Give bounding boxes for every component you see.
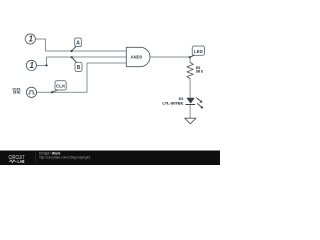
output wire from gate to LED node bbox=[150, 57, 190, 62]
wire from CLK1 to gate input 3 bbox=[37, 63, 127, 92]
LED light arrow 2 bbox=[197, 104, 201, 108]
ground symbol bbox=[185, 118, 196, 124]
logic input source 1 (top) bbox=[25, 34, 35, 44]
CircuitLab logo zigzag bbox=[9, 160, 17, 163]
resistor R1 bbox=[187, 62, 193, 78]
svg-text:AND3: AND3 bbox=[131, 55, 143, 60]
clock source CLK1 bbox=[26, 87, 36, 97]
svg-text:LTL-307EE: LTL-307EE bbox=[162, 101, 184, 105]
LED light arrow 1 bbox=[197, 98, 201, 102]
net flag CLK box bbox=[55, 81, 66, 90]
AND gate AND3 bbox=[126, 47, 150, 66]
net flag A box bbox=[75, 38, 82, 47]
node dot A bbox=[71, 50, 73, 52]
pointer line of flag B bbox=[72, 57, 77, 62]
footer bar bbox=[0, 151, 220, 166]
node dot B bbox=[71, 56, 73, 58]
footer separator bbox=[35, 152, 37, 163]
svg-text:B: B bbox=[77, 65, 81, 71]
wire from input 1 to node A bbox=[36, 39, 127, 51]
svg-text:330 Ω: 330 Ω bbox=[196, 70, 203, 74]
svg-text:LAB: LAB bbox=[18, 159, 25, 165]
wire from R1 to LED D1 bbox=[189, 79, 191, 98]
svg-text:LED: LED bbox=[194, 49, 204, 54]
logic input source 2 (middle) bbox=[26, 60, 36, 70]
svg-text:1: 1 bbox=[30, 61, 34, 70]
diode D1 triangle bbox=[186, 98, 194, 104]
pointer line of flag CLK bbox=[52, 90, 57, 92]
wire from D1 to ground bbox=[189, 105, 191, 118]
svg-text:A: A bbox=[76, 41, 80, 47]
pointer line of flag A bbox=[72, 47, 76, 51]
svg-text:10 Hz: 10 Hz bbox=[13, 91, 21, 95]
pointer line of flag LED bbox=[190, 55, 194, 57]
diode D1 cathode bar bbox=[186, 104, 195, 106]
net flag B box bbox=[75, 62, 82, 71]
node dot CLK bbox=[51, 91, 53, 93]
square wave glyph inside CLK1 bbox=[28, 91, 34, 94]
junction dot on wire B corner bbox=[45, 64, 47, 66]
net flag LED box bbox=[192, 46, 204, 55]
wire from input 2 to node B bbox=[37, 57, 127, 65]
node dot LED bbox=[189, 56, 191, 58]
svg-text:1: 1 bbox=[29, 34, 33, 43]
svg-text:http://circuitlab.com/c/5kgcna: http://circuitlab.com/c/5kgcnapkgk3 bbox=[39, 156, 90, 160]
svg-text:CLK: CLK bbox=[56, 84, 66, 89]
